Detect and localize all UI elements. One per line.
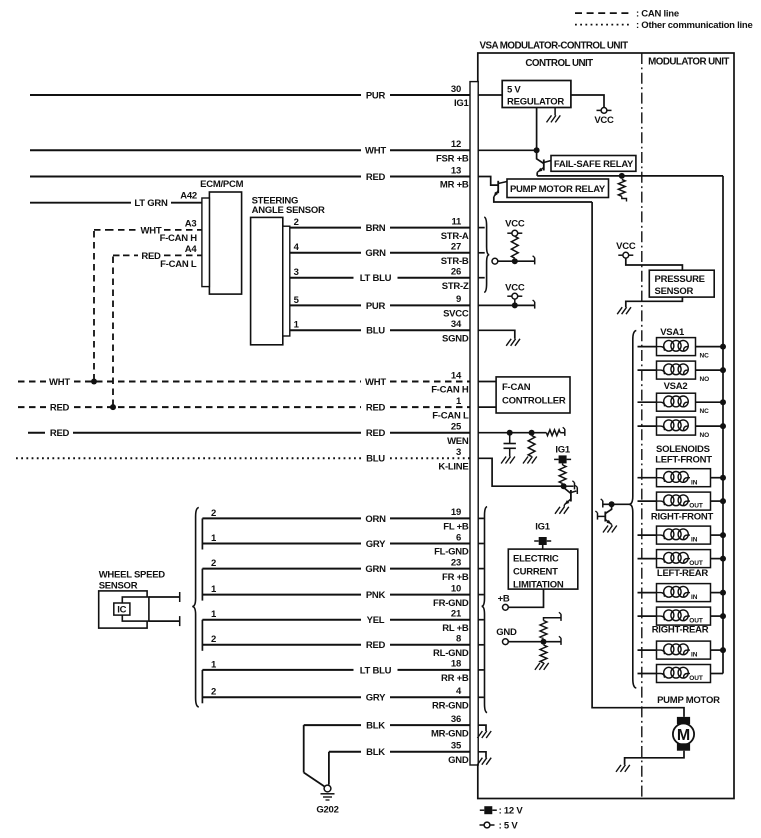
- transistor Q1 fail-safe drive: [537, 150, 544, 163]
- svg-text:IC: IC: [117, 605, 126, 616]
- solenoid coil right-rear IN: [657, 641, 711, 659]
- svg-text:STR-Z: STR-Z: [442, 281, 469, 292]
- svg-text:13: 13: [451, 165, 461, 176]
- wire PUR to pin 30 (IG1): [30, 94, 361, 96]
- svg-text:LT BLU: LT BLU: [360, 665, 392, 676]
- svg-text:VSA2: VSA2: [664, 381, 688, 392]
- svg-text:PUR: PUR: [366, 90, 386, 101]
- svg-text:VCC: VCC: [594, 115, 614, 126]
- svg-text:: 12 V: : 12 V: [499, 806, 524, 817]
- wire PNK to pin 10 (FR-GND): [202, 594, 361, 596]
- svg-text:RIGHT-REAR: RIGHT-REAR: [652, 624, 709, 635]
- svg-text:GRN: GRN: [365, 564, 386, 575]
- svg-text:VCC: VCC: [616, 241, 636, 252]
- transistor Q4 solenoid driver: [605, 504, 611, 513]
- wheel pin stub inside at y=518.4: [478, 517, 484, 519]
- SVCC stub: [514, 299, 516, 305]
- svg-text:5 V: 5 V: [507, 85, 521, 96]
- resistor R6 (upper): [544, 618, 562, 621]
- wire solenoid VSA1 NC to rail: [696, 346, 724, 348]
- svg-text:MODULATOR UNIT: MODULATOR UNIT: [648, 57, 729, 68]
- wheel pin stub inside at y=568.6: [478, 568, 484, 570]
- junction rail at left-front OUT: [720, 498, 726, 504]
- svg-text:IG1: IG1: [535, 522, 551, 533]
- svg-text:RIGHT-FRONT: RIGHT-FRONT: [651, 511, 714, 522]
- wire into solenoid right-rear IN: [638, 649, 657, 651]
- hook K-LINE node end: [574, 483, 576, 490]
- transistor Q2 pump relay drive: [497, 181, 499, 193]
- svg-text:OUT: OUT: [689, 675, 703, 682]
- GND terminal: [503, 639, 509, 645]
- svg-text:RED: RED: [366, 428, 386, 439]
- svg-text:NC: NC: [700, 353, 710, 360]
- wire GRN to pin 23 (FR +B): [202, 568, 361, 570]
- wire pin27 stub: [478, 252, 485, 254]
- wire BLU to pin 3 (K-LINE): [16, 457, 361, 459]
- wire R4 to hook: [560, 432, 565, 434]
- solenoid coil left-rear IN: [657, 584, 711, 602]
- svg-text:LT GRN: LT GRN: [134, 198, 168, 209]
- svg-text:IN: IN: [691, 537, 698, 544]
- svg-text:RR +B: RR +B: [441, 673, 469, 684]
- svg-text:RR-GND: RR-GND: [432, 701, 469, 712]
- wire solenoid left-rear OUT to rail: [711, 615, 724, 617]
- legend other-communication line sample: [575, 24, 630, 26]
- transistor Q3 ground: [564, 507, 569, 514]
- BLK wire 35 drop: [328, 752, 330, 785]
- wheel speed sensor wire lower: [149, 620, 180, 622]
- svg-text:VSA MODULATOR-CONTROL UNIT: VSA MODULATOR-CONTROL UNIT: [480, 41, 629, 52]
- hook SVCC wire end: [534, 302, 536, 309]
- wire PUR to pin 9 (SVCC): [290, 304, 361, 306]
- svg-text:VCC: VCC: [505, 218, 525, 229]
- wire BLK to pin 36 (MR-GND): [304, 724, 361, 726]
- wire pin11 stub: [478, 227, 485, 229]
- resistor R7 (lower): [540, 645, 547, 663]
- svg-text:BLU: BLU: [366, 454, 385, 465]
- svg-text:: 5 V: : 5 V: [499, 821, 519, 832]
- wire pin9 SVCC: [478, 304, 535, 306]
- wire into solenoid VSA2 NC: [638, 401, 657, 403]
- open terminal (STR): [492, 258, 498, 264]
- svg-text:A4: A4: [185, 244, 198, 255]
- svg-text:A42: A42: [180, 191, 197, 202]
- wire solenoid VSA2 NO to rail: [696, 425, 724, 427]
- wire pump relay to pump motor: [592, 202, 684, 717]
- ground G202 terminal: [324, 785, 331, 792]
- svg-text:: Other communication line: : Other communication line: [636, 20, 753, 31]
- solenoid coil right-front OUT: [657, 550, 711, 568]
- svg-text:CURRENT: CURRENT: [513, 567, 558, 578]
- hook STR wire end: [534, 258, 536, 265]
- regulator VCC output wire: [571, 95, 604, 107]
- steering angle sensor box: [251, 217, 283, 344]
- svg-text:STR-B: STR-B: [441, 256, 469, 267]
- brace solenoid group: [629, 331, 636, 689]
- regulator ground: [555, 115, 560, 122]
- svg-text:SENSOR: SENSOR: [99, 581, 138, 592]
- wire into solenoid left-rear OUT: [638, 615, 657, 617]
- wire into solenoid right-front IN: [638, 534, 657, 536]
- svg-text:2: 2: [211, 558, 216, 569]
- wire into solenoid VSA2 NO: [638, 425, 657, 427]
- solenoid supply rail: [722, 176, 724, 674]
- wire solenoid left-rear IN to rail: [711, 592, 724, 594]
- svg-text:RED: RED: [141, 251, 161, 262]
- junction GND node: [541, 639, 547, 645]
- junction K-LINE node: [561, 483, 567, 489]
- svg-text:VSA1: VSA1: [660, 327, 685, 338]
- legend CAN line sample: [575, 12, 630, 14]
- wire into solenoid right-front OUT: [638, 558, 657, 560]
- solenoid coil VSA1 NC: [657, 338, 696, 356]
- svg-text:K-LINE: K-LINE: [438, 462, 468, 473]
- resistor R3 ground: [532, 457, 537, 464]
- svg-text:8: 8: [456, 634, 461, 645]
- wire WHT to pin 12 (FSR +B): [30, 149, 361, 151]
- hook driver left end: [602, 501, 604, 508]
- wire LT BLU to pin 26 (STR-Z): [290, 277, 354, 279]
- svg-text:NO: NO: [700, 376, 710, 383]
- steering angle sensor connector: [283, 226, 290, 336]
- svg-text:WHT: WHT: [141, 225, 162, 236]
- svg-text:23: 23: [451, 557, 461, 568]
- wire pin13 MR+B: [478, 177, 498, 186]
- transistor Q3 K-LINE: [564, 488, 571, 494]
- pump motor ground: [625, 765, 630, 772]
- wire solenoid right-rear IN to rail: [711, 649, 724, 651]
- svg-text:BLU: BLU: [366, 326, 385, 337]
- svg-text:GRY: GRY: [366, 539, 386, 550]
- IG1 12V terminal (ECL): [534, 540, 539, 542]
- hook WEN wire end: [564, 429, 566, 436]
- svg-text:G202: G202: [316, 805, 338, 816]
- wire fail-safe to solenoid rail: [537, 175, 723, 177]
- svg-text:FL-GND: FL-GND: [434, 547, 469, 558]
- svg-text:WHT: WHT: [49, 377, 70, 388]
- resistor R5 (K-LINE pull-up): [562, 463, 564, 465]
- svg-text:SGND: SGND: [442, 334, 469, 345]
- resistor R4 (WEN series): [546, 430, 560, 436]
- junction F-CAN L: [110, 404, 116, 410]
- wheel speed sensor outer box: [99, 591, 147, 628]
- svg-text:IG1: IG1: [454, 98, 470, 109]
- svg-text:18: 18: [451, 659, 461, 670]
- dashed vertical F-CAN L branch: [112, 257, 114, 408]
- transistor Q4 ground: [612, 526, 617, 533]
- svg-text:F-CAN: F-CAN: [502, 382, 531, 393]
- wire solenoid VSA1 NO to rail: [696, 369, 724, 371]
- svg-text:2: 2: [211, 634, 216, 645]
- svg-text:LT BLU: LT BLU: [360, 273, 392, 284]
- solenoid coil VSA2 NC: [657, 393, 696, 411]
- svg-text:GND: GND: [496, 627, 517, 638]
- wire BRN to pin 11 (STR-A): [290, 227, 361, 229]
- wire into solenoid right-rear OUT: [638, 673, 657, 675]
- svg-text:NC: NC: [700, 408, 710, 415]
- wire GRN to pin 27 (STR-B): [290, 252, 361, 254]
- svg-text:A3: A3: [185, 218, 197, 229]
- wire pin14 stub: [478, 381, 496, 383]
- wire pin35 ground: [478, 752, 486, 758]
- regulator ground stub: [554, 108, 556, 116]
- dashed RED wire to ECM pin A4: [123, 254, 138, 256]
- svg-text:3: 3: [294, 267, 299, 278]
- svg-text:LEFT-FRONT: LEFT-FRONT: [655, 454, 712, 465]
- svg-text:25: 25: [451, 422, 462, 433]
- junction driver node: [609, 501, 615, 507]
- svg-text:GRY: GRY: [366, 693, 386, 704]
- capacitor C1: [504, 443, 516, 445]
- svg-text:RL +B: RL +B: [442, 623, 469, 634]
- pin35 ground symbol: [486, 758, 491, 765]
- hook R6 upper end: [560, 614, 562, 621]
- svg-text:10: 10: [451, 583, 461, 594]
- wheel speed sensor IC box: [114, 603, 130, 615]
- F-CAN controller box: [496, 377, 570, 413]
- resistor R2 (STR pull-up): [511, 236, 518, 258]
- svg-text:IN: IN: [691, 594, 698, 601]
- wheel pin stub inside at y=594.6: [478, 594, 484, 596]
- wire into solenoid VSA1 NC: [638, 346, 657, 348]
- solenoid coil VSA2 NO: [657, 417, 696, 435]
- svg-text:CONTROL UNIT: CONTROL UNIT: [525, 58, 593, 69]
- wire pin30 to regulator: [478, 94, 502, 96]
- junction FSR node: [534, 147, 540, 153]
- resistor R3 (WEN): [528, 436, 535, 457]
- wire solenoid right-rear OUT to rail: [711, 673, 724, 675]
- svg-text:CONTROLLER: CONTROLLER: [502, 396, 566, 407]
- svg-text:GRN: GRN: [365, 248, 386, 259]
- fail-safe relay box: [551, 156, 636, 172]
- dashed WHT wire to ECM pin A3: [107, 229, 138, 231]
- svg-text:: CAN line: : CAN line: [636, 9, 679, 20]
- svg-text:6: 6: [456, 532, 461, 543]
- wire into solenoid left-front IN: [638, 477, 657, 479]
- wheel speed sensor head box: [122, 597, 149, 621]
- svg-text:26: 26: [451, 267, 461, 278]
- svg-text:34: 34: [451, 319, 462, 330]
- svg-text:OUT: OUT: [689, 503, 703, 510]
- svg-text:SENSOR: SENSOR: [655, 286, 694, 297]
- svg-text:ELECTRIC: ELECTRIC: [513, 554, 559, 565]
- svg-text:REGULATOR: REGULATOR: [507, 97, 564, 108]
- svg-text:IG1: IG1: [555, 445, 571, 456]
- svg-text:RL-GND: RL-GND: [433, 648, 469, 659]
- wire VCC to pressure sensor: [626, 258, 683, 270]
- VCC terminal (STR): [507, 232, 512, 234]
- svg-text:PRESSURE: PRESSURE: [655, 274, 705, 285]
- solenoid driver node wire: [603, 503, 629, 505]
- +B terminal: [503, 604, 509, 610]
- wire solenoid VSA2 NC to rail: [696, 401, 724, 403]
- svg-text:WHT: WHT: [365, 377, 386, 388]
- wire solenoid right-front IN to rail: [711, 534, 724, 536]
- wire RED to pin 25 (WEN): [28, 432, 45, 434]
- electric current limitation box: [508, 549, 578, 589]
- svg-text:21: 21: [451, 609, 462, 620]
- wheel pair connector bar at y=619.7: [201, 620, 203, 651]
- wire STR comparator: [498, 260, 535, 262]
- svg-text:36: 36: [451, 714, 461, 725]
- pressure sensor ground wire: [626, 297, 683, 307]
- wire ORN to pin 19 (FL +B): [202, 517, 361, 519]
- svg-text:RED: RED: [366, 640, 386, 651]
- ECM/PCM connector: [202, 198, 210, 287]
- wire into solenoid left-rear IN: [638, 592, 657, 594]
- svg-text:RED: RED: [366, 172, 386, 183]
- svg-text:BLK: BLK: [366, 721, 385, 732]
- junction rail at VSA1 NC: [720, 344, 726, 350]
- svg-text:SVCC: SVCC: [443, 309, 469, 320]
- svg-text:OUT: OUT: [689, 618, 703, 625]
- svg-text:2: 2: [294, 217, 299, 228]
- svg-text:12: 12: [451, 139, 461, 150]
- regulator output to FSR node: [536, 108, 538, 151]
- wire BLK to pin 35 (GND): [329, 751, 361, 753]
- svg-text:WHEEL SPEED: WHEEL SPEED: [99, 569, 166, 580]
- svg-text:STR-A: STR-A: [441, 231, 469, 242]
- wire pin1 stub: [478, 406, 496, 408]
- control/modulator divider: [641, 53, 643, 799]
- wire into solenoid VSA1 NO: [638, 369, 657, 371]
- svg-text:YEL: YEL: [367, 615, 385, 626]
- wire YEL to pin 21 (RL +B): [202, 619, 361, 621]
- capacitor C1 ground: [510, 457, 515, 464]
- svg-text:IN: IN: [691, 479, 698, 486]
- resistor R1 lower hook: [622, 196, 627, 201]
- svg-text:2: 2: [211, 687, 216, 698]
- wire pin3 K-LINE: [478, 458, 563, 486]
- svg-text:LEFT-REAR: LEFT-REAR: [657, 568, 708, 579]
- svg-text:F-CAN L: F-CAN L: [160, 259, 197, 270]
- junction rail at VSA2 NO: [720, 423, 726, 429]
- svg-text:14: 14: [451, 370, 462, 381]
- svg-text:ECM/PCM: ECM/PCM: [200, 179, 243, 190]
- IG1 12V terminal (K-LINE): [554, 458, 559, 460]
- ECM/PCM box: [209, 192, 241, 294]
- wire solenoid left-front OUT to rail: [711, 500, 724, 502]
- dashed vertical F-CAN H branch: [93, 231, 95, 382]
- wire WHT to pin 14 (F-CAN H): [18, 381, 46, 383]
- svg-text:FAIL-SAFE RELAY: FAIL-SAFE RELAY: [554, 159, 634, 170]
- svg-text:3: 3: [456, 447, 461, 458]
- svg-text:VCC: VCC: [505, 282, 525, 293]
- solenoid coil right-rear OUT: [657, 665, 711, 683]
- BLK wire 36 drop: [303, 725, 305, 772]
- wire RED to pin 8 (RL-GND): [202, 644, 361, 646]
- svg-text:F-CAN L: F-CAN L: [432, 410, 469, 421]
- svg-text:F-CAN H: F-CAN H: [160, 233, 198, 244]
- svg-text:MR-GND: MR-GND: [431, 728, 469, 739]
- svg-text:FSR +B: FSR +B: [436, 154, 469, 165]
- svg-text:IN: IN: [691, 652, 698, 659]
- solenoid coil right-front IN: [657, 526, 711, 544]
- wire solenoid right-front OUT to rail: [711, 558, 724, 560]
- wire pin25 WEN: [478, 432, 546, 434]
- wheel pin stub inside at y=697.3: [478, 696, 484, 698]
- svg-text:ORN: ORN: [365, 514, 386, 525]
- resistor R7 ground: [544, 663, 549, 670]
- wheel pin stub inside at y=644.8: [478, 644, 484, 646]
- wire BLU to pin 34 (SGND): [290, 329, 361, 331]
- wire LT BLU to pin 18 (RR +B): [202, 669, 353, 671]
- wire ECL to +B: [508, 589, 543, 607]
- hook GND right end: [560, 638, 562, 645]
- svg-text:PNK: PNK: [366, 590, 386, 601]
- solenoid coil left-rear OUT: [657, 607, 711, 625]
- wire pin12 FSR: [478, 149, 536, 151]
- svg-text:OUT: OUT: [689, 560, 703, 567]
- svg-text:35: 35: [451, 741, 462, 752]
- junction F-CAN H: [91, 379, 97, 385]
- junction rail at VSA1 NO: [720, 367, 726, 373]
- svg-text:9: 9: [456, 294, 461, 305]
- junction STR node: [512, 258, 518, 264]
- junction rail at VSA2 NC: [720, 399, 726, 405]
- svg-text:RED: RED: [366, 403, 386, 414]
- VSA control unit connector: [470, 82, 478, 765]
- wheel pin stub inside at y=669.9: [478, 669, 484, 671]
- wheel pin stub inside at y=543.5: [478, 543, 484, 545]
- svg-text:MR +B: MR +B: [440, 180, 469, 191]
- svg-text:2: 2: [211, 508, 216, 519]
- junction SVCC node: [512, 302, 518, 308]
- svg-text:WHT: WHT: [365, 146, 386, 157]
- wire RED to pin 1 (F-CAN L): [18, 406, 46, 408]
- svg-text:11: 11: [451, 216, 462, 227]
- wheel speed sensor brace: [192, 508, 199, 708]
- svg-text:PUR: PUR: [366, 301, 386, 312]
- pump motor ground wire: [625, 751, 684, 765]
- junction fail-safe resistor node: [619, 173, 625, 179]
- solenoid coil left-front OUT: [657, 492, 711, 510]
- VSA modulator-control unit box: [478, 53, 734, 799]
- VCC terminal (pressure sensor): [618, 254, 623, 256]
- ECL supply stub: [542, 545, 544, 549]
- ground G202 earth bars: [321, 793, 335, 795]
- junction rail at right-rear IN: [720, 647, 726, 653]
- svg-text:PUMP MOTOR: PUMP MOTOR: [657, 695, 720, 706]
- K-LINE node stub: [564, 485, 574, 487]
- svg-text:WEN: WEN: [447, 436, 469, 447]
- legend 12V symbol: [480, 809, 485, 811]
- pin36 ground symbol: [486, 731, 491, 738]
- svg-text:27: 27: [451, 242, 461, 253]
- svg-text:BRN: BRN: [366, 223, 386, 234]
- svg-text:NO: NO: [700, 432, 710, 439]
- pump motor M1: [677, 717, 690, 724]
- SGND ground: [515, 339, 520, 346]
- junction rail at left-rear OUT: [720, 613, 726, 619]
- wire pin34 SGND: [478, 330, 515, 339]
- wheel speed sensor wire upper: [149, 596, 180, 598]
- solenoid coil VSA1 NO: [657, 361, 696, 379]
- svg-text:M: M: [677, 727, 690, 744]
- wire GND to node: [508, 641, 561, 643]
- svg-text:+B: +B: [498, 594, 510, 605]
- 5V regulator U1: [502, 81, 571, 108]
- junction WEN node 2: [529, 430, 535, 436]
- LT GRN wire to ECM/PCM pin A42: [30, 202, 131, 204]
- VCC terminal (SVCC): [507, 295, 512, 297]
- svg-text:LIMITATION: LIMITATION: [513, 580, 564, 591]
- svg-text:FL +B: FL +B: [443, 522, 469, 533]
- svg-text:FR +B: FR +B: [442, 572, 469, 583]
- svg-text:ANGLE SENSOR: ANGLE SENSOR: [252, 205, 325, 216]
- capacitor C1 stub: [509, 433, 511, 444]
- wire into solenoid left-front OUT: [638, 500, 657, 502]
